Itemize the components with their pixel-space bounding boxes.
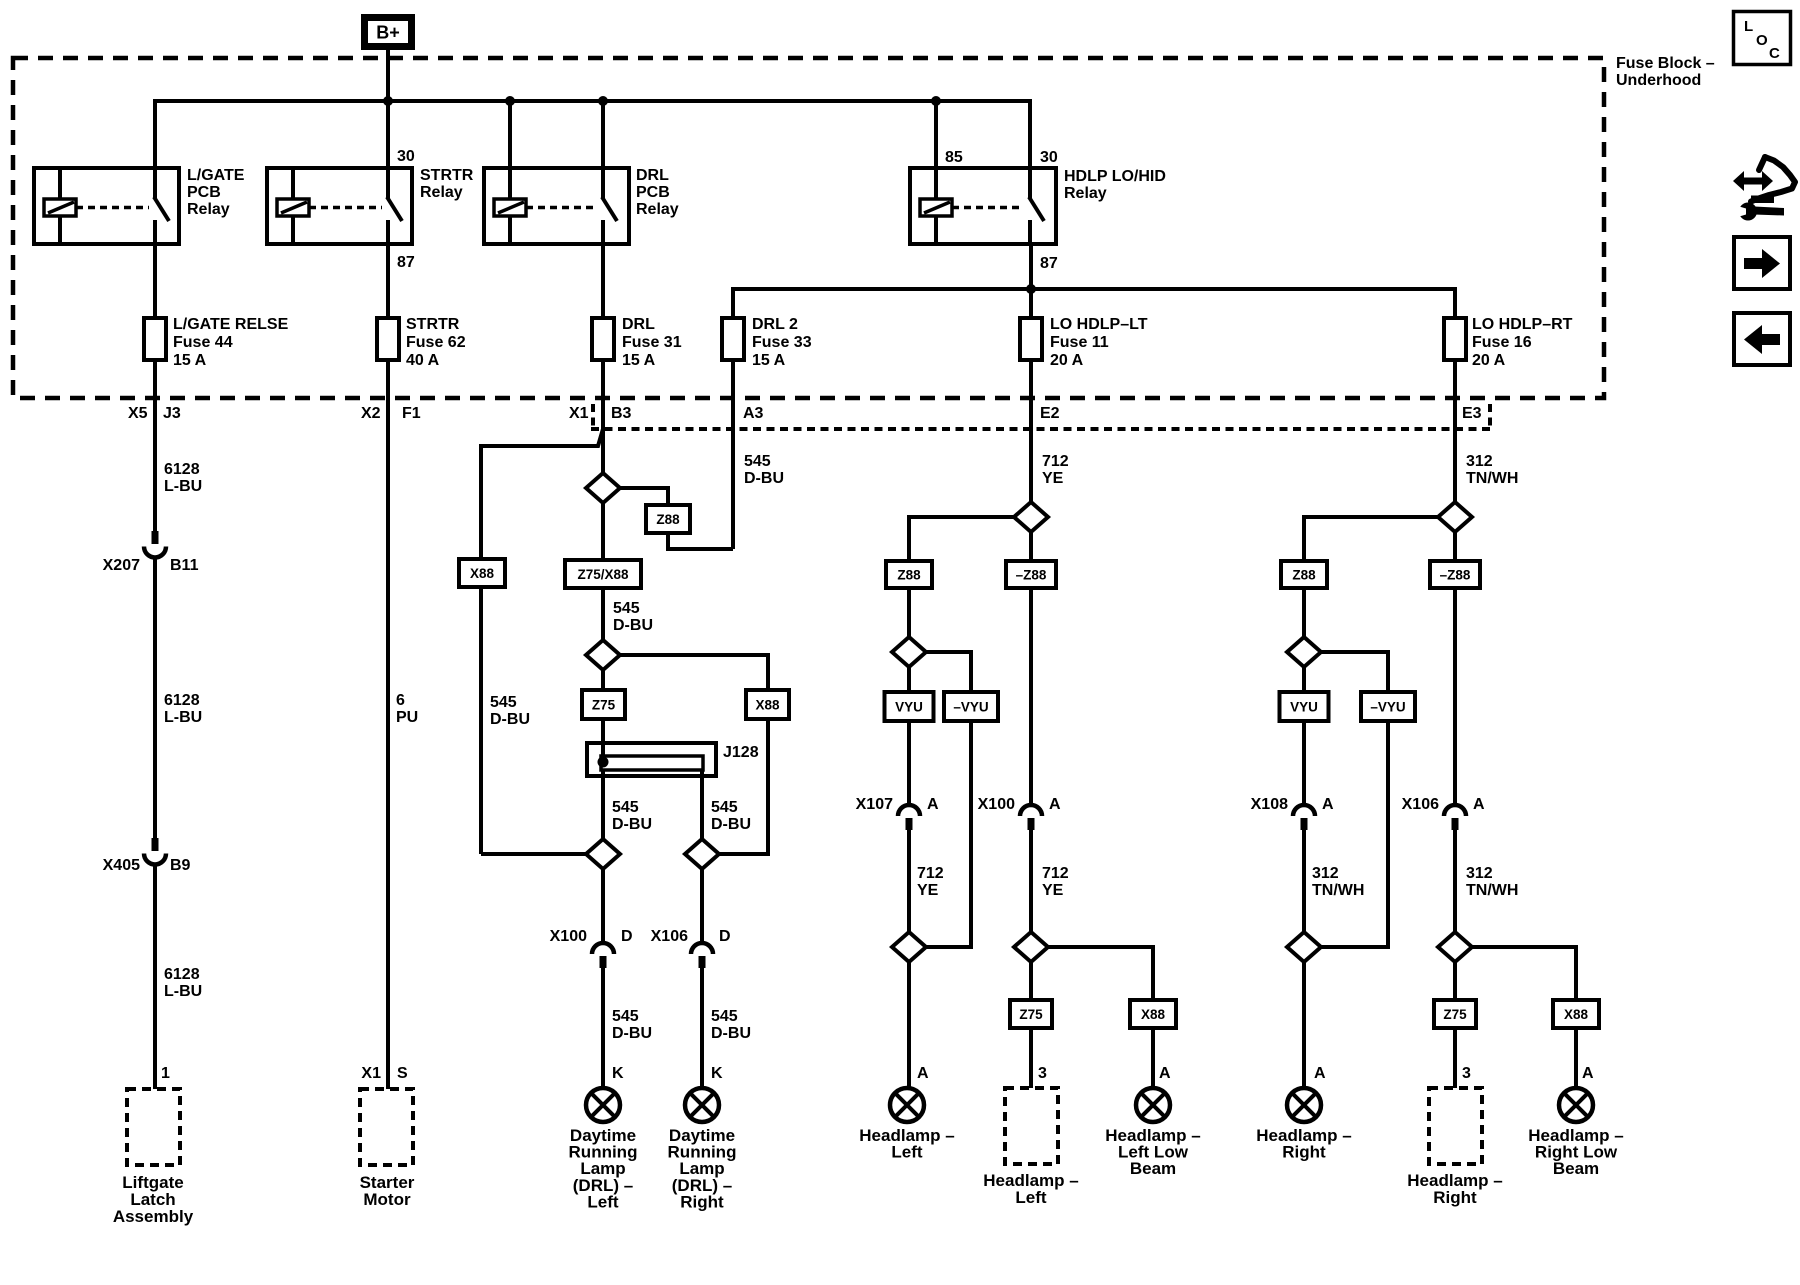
svg-text:X405: X405 [103,857,140,874]
svg-text:Beam: Beam [1130,1159,1176,1178]
svg-text:Assembly: Assembly [113,1207,194,1226]
svg-text:B9: B9 [170,857,191,874]
svg-text:A: A [1314,1065,1326,1082]
svg-text:Z88: Z88 [656,512,680,527]
svg-text:X107: X107 [856,796,893,813]
svg-text:1: 1 [161,1065,170,1082]
svg-text:Relay: Relay [1064,185,1107,202]
svg-text:6: 6 [396,692,405,709]
svg-text:Left: Left [891,1143,923,1162]
svg-text:D-BU: D-BU [711,1025,751,1042]
svg-text:15 A: 15 A [173,352,207,369]
svg-text:–Z88: –Z88 [1016,567,1047,582]
svg-text:20 A: 20 A [1472,352,1506,369]
svg-text:S: S [397,1065,408,1082]
svg-text:LO HDLP–LT: LO HDLP–LT [1050,316,1148,333]
svg-text:VYU: VYU [895,699,923,714]
svg-text:X108: X108 [1251,796,1288,813]
svg-text:YE: YE [1042,470,1064,487]
svg-text:STRTR: STRTR [420,167,474,184]
svg-text:D-BU: D-BU [612,1025,652,1042]
svg-text:Z75/X88: Z75/X88 [577,567,629,582]
svg-text:PCB: PCB [187,184,221,201]
svg-text:X5: X5 [128,405,148,422]
svg-text:LO HDLP–RT: LO HDLP–RT [1472,316,1573,333]
svg-text:Right: Right [680,1192,724,1211]
svg-text:L-BU: L-BU [164,709,202,726]
svg-text:O: O [1756,32,1768,49]
svg-text:–VYU: –VYU [953,699,988,714]
svg-text:X88: X88 [1141,1007,1166,1022]
svg-text:545: 545 [613,600,640,617]
svg-text:Right: Right [1282,1143,1326,1162]
svg-text:312: 312 [1466,453,1493,470]
svg-text:87: 87 [397,254,415,271]
svg-text:B3: B3 [611,405,632,422]
svg-text:545: 545 [711,1008,738,1025]
svg-text:X1: X1 [569,405,589,422]
svg-text:TN/WH: TN/WH [1466,882,1518,899]
svg-text:Fuse Block –: Fuse Block – [1616,55,1715,72]
svg-text:30: 30 [1040,149,1058,166]
svg-text:X88: X88 [755,697,780,712]
svg-text:Z88: Z88 [1292,567,1316,582]
svg-text:Left: Left [1015,1188,1047,1207]
svg-text:K: K [612,1065,624,1082]
svg-text:D-BU: D-BU [744,470,784,487]
svg-text:Fuse 31: Fuse 31 [622,334,682,351]
svg-text:20 A: 20 A [1050,352,1084,369]
svg-text:X2: X2 [361,405,381,422]
svg-text:A: A [1049,796,1061,813]
svg-text:712: 712 [1042,865,1069,882]
svg-text:TN/WH: TN/WH [1466,470,1518,487]
svg-text:Right: Right [1433,1188,1477,1207]
svg-text:A: A [917,1065,929,1082]
svg-text:C: C [1769,45,1780,62]
svg-text:87: 87 [1040,255,1058,272]
svg-text:D-BU: D-BU [613,617,653,634]
svg-text:A3: A3 [743,405,764,422]
svg-text:D-BU: D-BU [711,816,751,833]
svg-text:X106: X106 [651,928,688,945]
svg-text:A: A [1159,1065,1171,1082]
svg-text:–Z88: –Z88 [1440,567,1471,582]
svg-text:Fuse 44: Fuse 44 [173,334,233,351]
svg-text:X106: X106 [1402,796,1439,813]
svg-text:STRTR: STRTR [406,316,460,333]
svg-text:15 A: 15 A [752,352,786,369]
svg-text:HDLP LO/HID: HDLP LO/HID [1064,168,1166,185]
svg-text:L-BU: L-BU [164,983,202,1000]
svg-text:Relay: Relay [420,184,463,201]
svg-text:545: 545 [612,799,639,816]
svg-text:X88: X88 [470,566,495,581]
svg-text:TN/WH: TN/WH [1312,882,1364,899]
svg-text:312: 312 [1466,865,1493,882]
svg-text:PU: PU [396,709,418,726]
svg-text:3: 3 [1038,1065,1047,1082]
svg-text:X100: X100 [978,796,1015,813]
svg-text:D-BU: D-BU [612,816,652,833]
svg-text:A: A [1582,1065,1594,1082]
svg-text:X1: X1 [361,1065,381,1082]
svg-text:X100: X100 [550,928,587,945]
svg-text:D: D [621,928,633,945]
svg-text:Fuse 33: Fuse 33 [752,334,812,351]
svg-text:E3: E3 [1462,405,1482,422]
svg-text:YE: YE [917,882,939,899]
svg-text:D-BU: D-BU [490,711,530,728]
svg-text:E2: E2 [1040,405,1060,422]
svg-text:712: 712 [1042,453,1069,470]
svg-text:K: K [711,1065,723,1082]
svg-text:6128: 6128 [164,966,200,983]
svg-text:F1: F1 [402,405,421,422]
svg-text:J3: J3 [163,405,181,422]
svg-text:15 A: 15 A [622,352,656,369]
svg-text:–VYU: –VYU [1370,699,1405,714]
svg-text:PCB: PCB [636,184,670,201]
svg-text:L/GATE: L/GATE [187,167,245,184]
svg-text:712: 712 [917,865,944,882]
svg-text:Relay: Relay [187,201,230,218]
svg-text:Z75: Z75 [592,697,616,712]
svg-text:Motor: Motor [363,1190,411,1209]
svg-text:Underhood: Underhood [1616,72,1701,89]
svg-text:6128: 6128 [164,692,200,709]
svg-text:DRL: DRL [622,316,655,333]
svg-text:545: 545 [744,453,771,470]
svg-text:Relay: Relay [636,201,679,218]
svg-text:X207: X207 [103,557,140,574]
svg-text:Fuse 11: Fuse 11 [1050,334,1109,351]
svg-text:Z75: Z75 [1443,1007,1467,1022]
svg-text:A: A [1473,796,1485,813]
svg-text:40 A: 40 A [406,352,440,369]
svg-text:A: A [927,796,939,813]
svg-text:545: 545 [490,694,517,711]
svg-text:312: 312 [1312,865,1339,882]
svg-text:545: 545 [711,799,738,816]
svg-text:Z88: Z88 [897,567,921,582]
svg-text:L/GATE RELSE: L/GATE RELSE [173,316,289,333]
svg-text:545: 545 [612,1008,639,1025]
svg-text:J128: J128 [723,744,759,761]
svg-text:Beam: Beam [1553,1159,1599,1178]
svg-text:X88: X88 [1564,1007,1589,1022]
svg-text:D: D [719,928,731,945]
svg-text:3: 3 [1462,1065,1471,1082]
svg-text:Fuse 16: Fuse 16 [1472,334,1532,351]
svg-text:85: 85 [945,149,963,166]
svg-text:L-BU: L-BU [164,478,202,495]
svg-text:YE: YE [1042,882,1064,899]
svg-text:DRL 2: DRL 2 [752,316,798,333]
svg-text:A: A [1322,796,1334,813]
svg-text:Z75: Z75 [1019,1007,1043,1022]
svg-text:30: 30 [397,148,415,165]
svg-text:L: L [1744,18,1753,35]
svg-text:6128: 6128 [164,461,200,478]
svg-text:DRL: DRL [636,167,669,184]
svg-text:Fuse 62: Fuse 62 [406,334,466,351]
svg-text:B+: B+ [376,23,400,43]
svg-text:VYU: VYU [1290,699,1318,714]
svg-text:Left: Left [587,1192,619,1211]
svg-text:B11: B11 [170,557,199,574]
